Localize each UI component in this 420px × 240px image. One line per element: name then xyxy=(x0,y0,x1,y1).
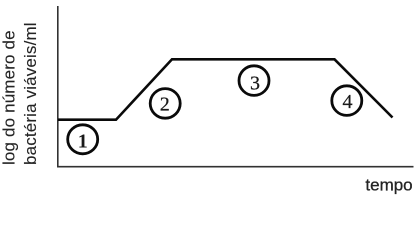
svg-text:tempo: tempo xyxy=(365,176,412,195)
y-axis xyxy=(57,6,59,168)
x-axis xyxy=(57,166,414,168)
circle marker 2 xyxy=(150,89,180,119)
svg-text:4: 4 xyxy=(343,91,353,113)
circle marker 4 xyxy=(332,86,362,116)
svg-text:3: 3 xyxy=(250,72,260,94)
growth curve (lag, log, stationary, decline) xyxy=(58,59,393,119)
svg-text:2: 2 xyxy=(160,93,170,115)
svg-text:1: 1 xyxy=(78,130,88,152)
svg-text:log do número debactéria viáve: log do número debactéria viáveis/ml xyxy=(0,22,40,165)
circle marker 1 xyxy=(68,125,98,154)
circle marker 3 xyxy=(239,66,269,96)
